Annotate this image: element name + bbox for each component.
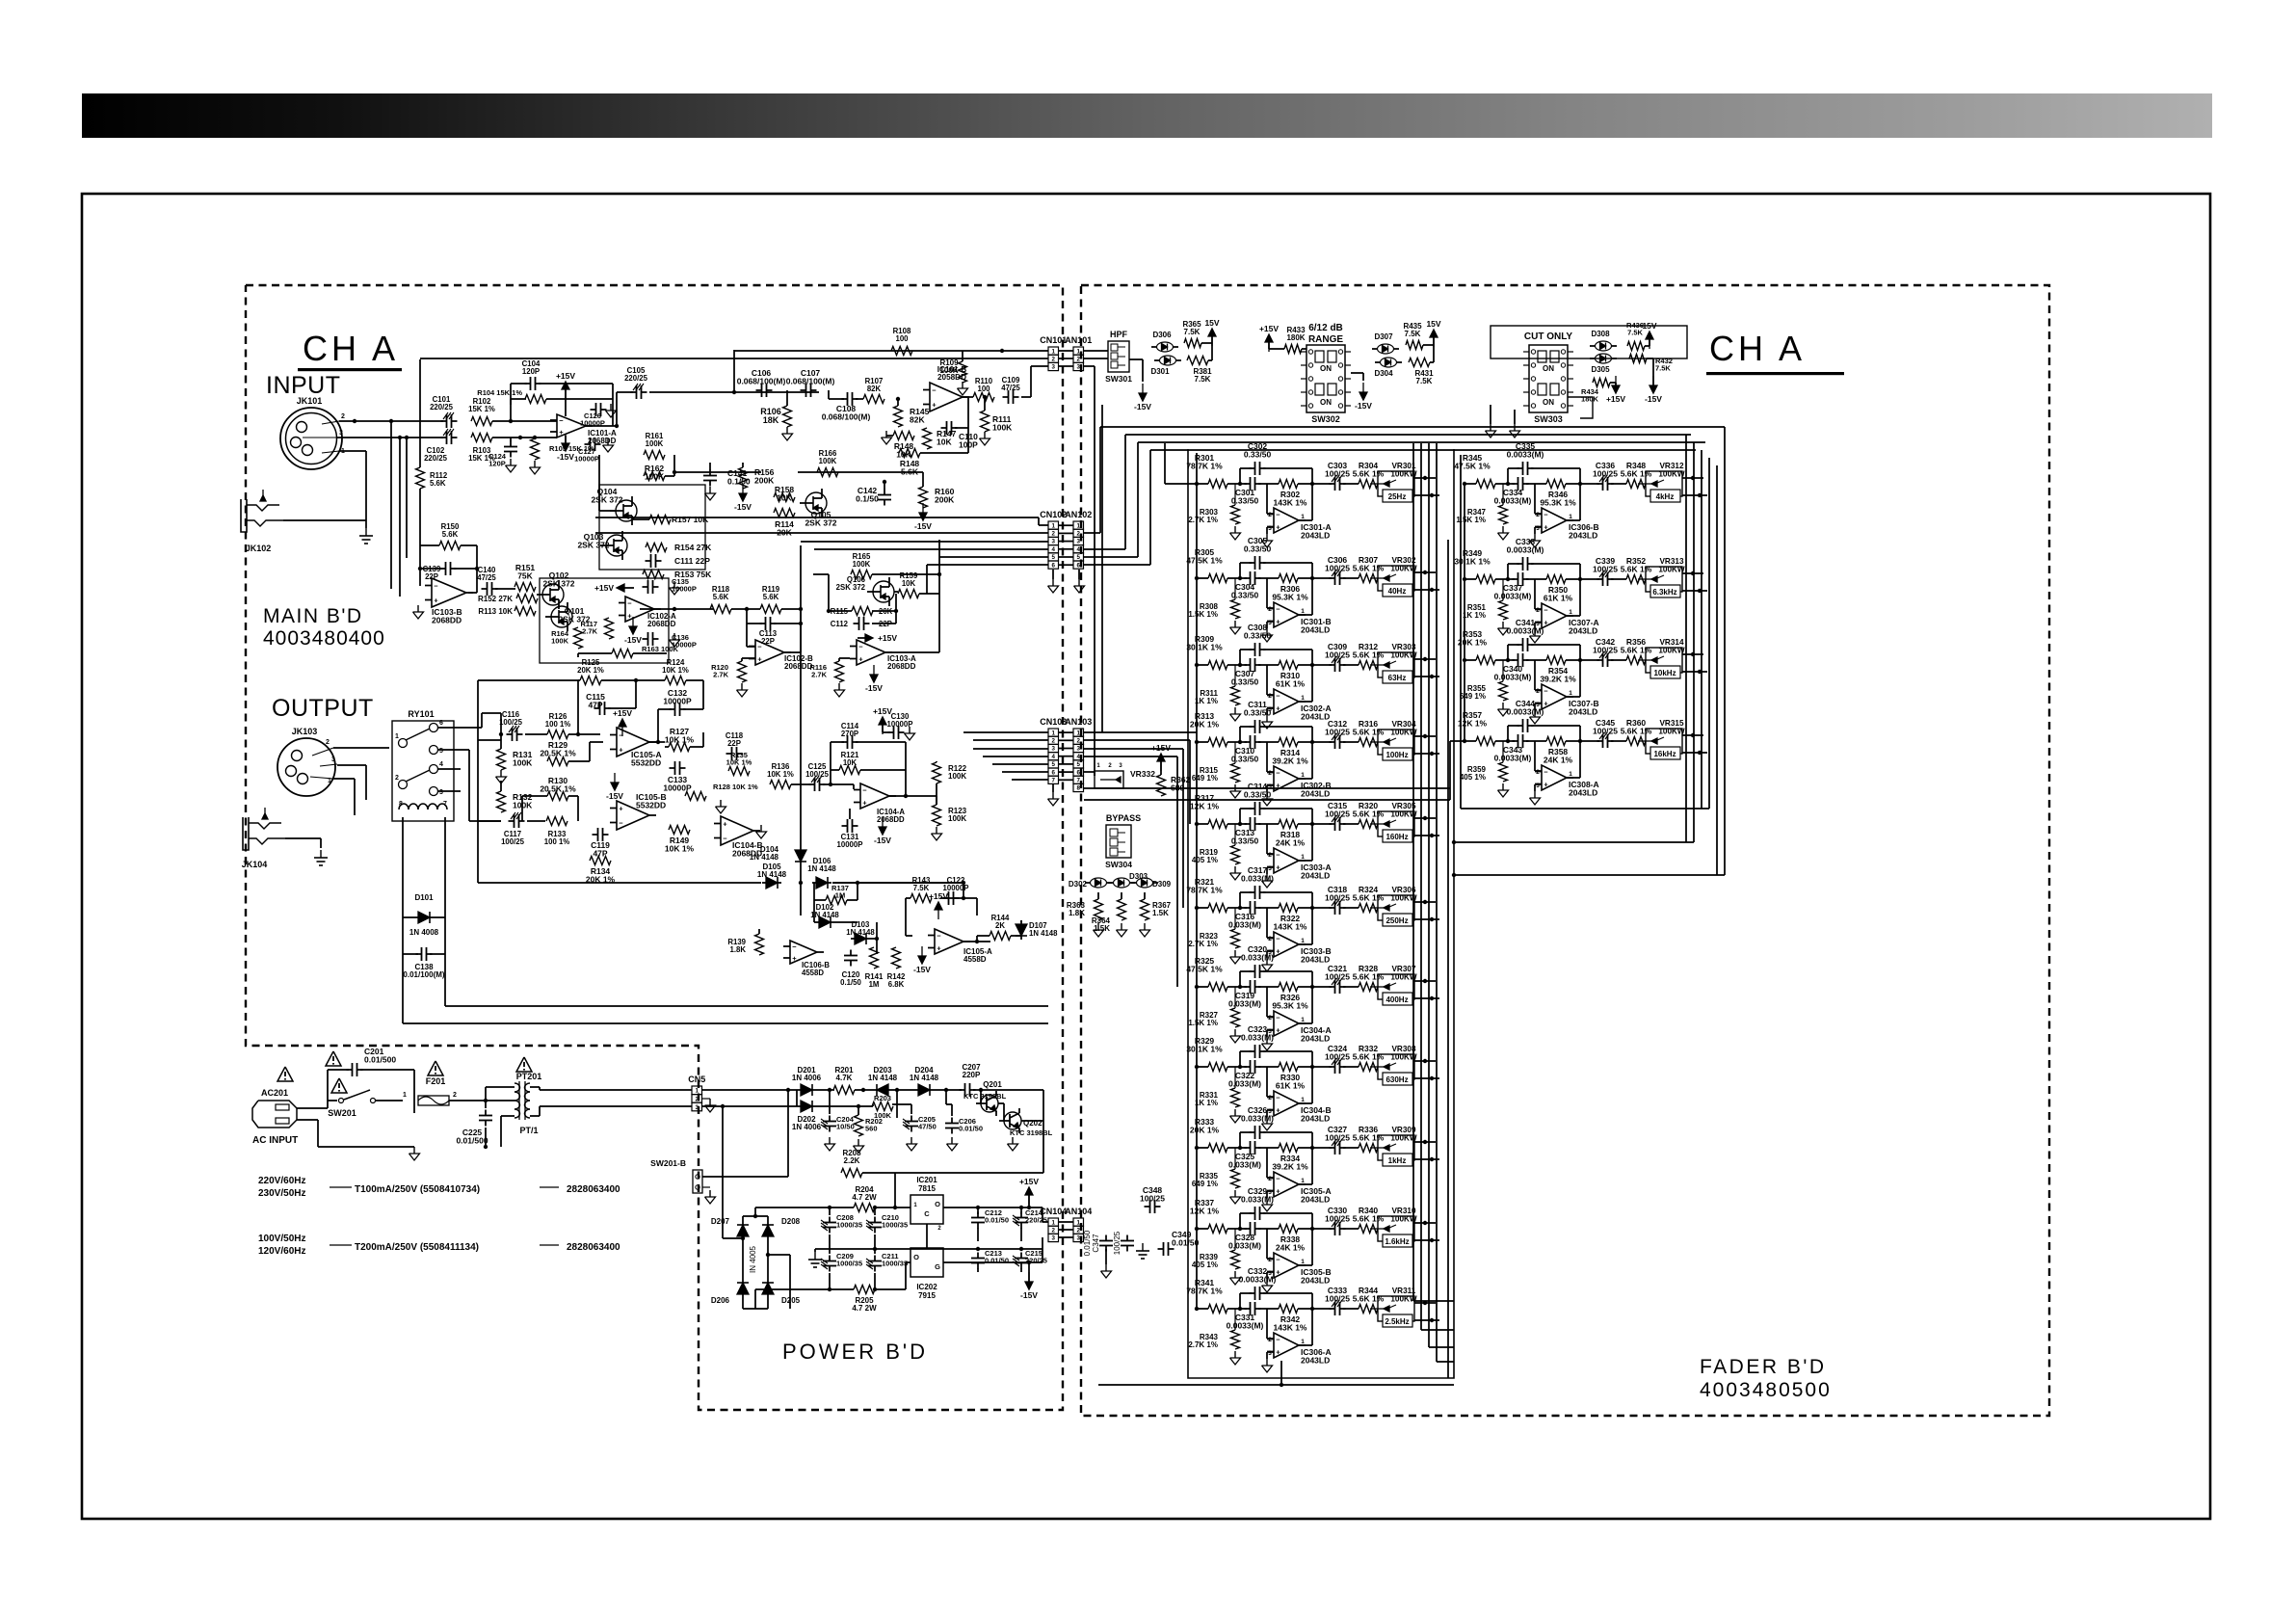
svg-text:0.01/500: 0.01/500 (456, 1136, 488, 1146)
svg-text:R203: R203 (874, 1094, 891, 1102)
power +15V at IC101-A (565, 389, 567, 399)
svg-text:−: − (862, 786, 867, 795)
wire VR302 to bus (1414, 571, 1436, 573)
capacitor C333 (1330, 1308, 1335, 1310)
capacitor C210 (874, 1217, 876, 1223)
wire output of IC301-B (1299, 614, 1312, 616)
capacitor C139 (440, 568, 446, 570)
op-amp IC101-A (557, 414, 586, 438)
resistor R204 (854, 1204, 875, 1212)
wire VR312 to bus (1682, 477, 1703, 479)
svg-text:0.1/50: 0.1/50 (856, 494, 879, 504)
connector AN104 (1073, 1218, 1084, 1226)
bridge diode D206 (742, 1279, 744, 1298)
wire node A of cell VR311 (1227, 1308, 1247, 1310)
svg-text:5.6K 1%: 5.6K 1% (1353, 972, 1385, 982)
svg-text:6: 6 (1052, 562, 1056, 569)
capacitor C306 (1330, 577, 1335, 579)
svg-text:2: 2 (1052, 1228, 1056, 1234)
wire main board power verticals (402, 848, 404, 1023)
wires MAIN to CN102 (595, 517, 1039, 518)
svg-text:2043LD: 2043LD (1301, 1114, 1330, 1124)
resistor R360 (1626, 737, 1646, 746)
XLR connector JK101 (280, 408, 342, 469)
diode D307 (1378, 344, 1394, 354)
svg-text:6: 6 (1077, 562, 1081, 569)
svg-text:AN101: AN101 (1065, 335, 1092, 345)
potentiometer VR309 (1378, 1135, 1414, 1160)
bridge diode D207 (742, 1221, 744, 1240)
svg-text:100/25: 100/25 (1325, 1052, 1350, 1062)
resistor R303 (1231, 505, 1240, 524)
svg-text:100KW: 100KW (1390, 470, 1417, 479)
resistor R149 (669, 826, 690, 835)
capacitor C321 (1330, 986, 1335, 988)
svg-text:100K: 100K (992, 423, 1013, 433)
connector CN101 (1048, 347, 1059, 355)
wire output of IC306-A (1299, 1344, 1312, 1346)
svg-text:220/25: 220/25 (424, 454, 448, 463)
capacitor C334 (1513, 483, 1518, 485)
resistor R304 (1359, 480, 1378, 489)
resistor R143 (910, 894, 932, 903)
capacitor C142 (884, 490, 885, 495)
svg-text:0.033(M): 0.033(M) (1241, 1033, 1274, 1043)
svg-text:405 1%: 405 1% (1192, 1261, 1218, 1269)
svg-text:47/25: 47/25 (1001, 384, 1020, 392)
svg-text:1: 1 (1301, 695, 1305, 702)
capacitor C136 (643, 638, 648, 640)
wire input of R357 (1465, 740, 1476, 742)
svg-text:39.2K 1%: 39.2K 1% (1272, 756, 1308, 766)
svg-text:SW303: SW303 (1534, 414, 1563, 424)
svg-text:560: 560 (865, 1125, 878, 1133)
svg-text:PT201: PT201 (516, 1072, 542, 1081)
svg-text:3: 3 (339, 430, 343, 437)
resistor R326 (1279, 983, 1298, 992)
svg-text:4.7K: 4.7K (836, 1074, 853, 1082)
ground of R331 (1234, 1109, 1236, 1116)
svg-text:3: 3 (1077, 364, 1081, 371)
svg-text:1: 1 (1301, 938, 1305, 944)
svg-text:+: + (559, 428, 564, 437)
svg-text:22P: 22P (727, 739, 741, 748)
svg-text:10K: 10K (843, 758, 858, 767)
svg-text:D308: D308 (1591, 330, 1610, 338)
svg-text:100KW: 100KW (1390, 1053, 1417, 1062)
svg-text:270P: 270P (841, 730, 858, 738)
svg-text:0.0033(M): 0.0033(M) (1494, 496, 1532, 506)
svg-text:3: 3 (1268, 1350, 1272, 1357)
capacitor C108 (842, 398, 848, 400)
svg-text:8: 8 (399, 801, 403, 808)
svg-text:1N 4148: 1N 4148 (1029, 929, 1058, 938)
potentiometer VR314 (1646, 648, 1682, 673)
svg-text:0.068/100(M): 0.068/100(M) (737, 377, 786, 386)
capacitor C304 (1245, 577, 1251, 579)
capacitor C311 (1250, 726, 1255, 728)
svg-text:7915: 7915 (918, 1291, 936, 1300)
svg-text:2828063400: 2828063400 (567, 1242, 620, 1253)
resistor R336 (1359, 1144, 1378, 1153)
resistor R355 (1499, 681, 1508, 701)
op-amp IC307-A (1542, 603, 1567, 628)
svg-text:100K: 100K (853, 560, 871, 569)
capacitor C305 (1250, 562, 1255, 564)
regulator IC202 (910, 1248, 943, 1277)
svg-text:D301: D301 (1150, 367, 1170, 376)
ground of R311 (1234, 707, 1236, 714)
resistor R130 (547, 792, 568, 801)
resistor R106 (783, 406, 792, 427)
svg-text:−: − (1276, 935, 1280, 943)
capacitor C132 (670, 708, 675, 710)
svg-text:−: − (1276, 511, 1280, 519)
resistor R109 (959, 361, 967, 383)
svg-text:2043LD: 2043LD (1301, 1034, 1330, 1044)
resistor R364 (1118, 899, 1126, 920)
svg-text:10000P: 10000P (663, 697, 692, 706)
svg-text:1: 1 (1301, 772, 1305, 779)
resistor R338 (1279, 1225, 1298, 1234)
wire node A of cell VR315 (1495, 740, 1515, 742)
fader left vertical feed bus (1196, 453, 1198, 1309)
svg-text:2: 2 (1536, 607, 1540, 614)
svg-text:2: 2 (395, 775, 399, 782)
svg-text:MAIN B'D: MAIN B'D (263, 605, 363, 627)
ground of CN5 (702, 1098, 710, 1100)
capacitor C120 (850, 950, 852, 956)
ground of R116 (838, 683, 840, 690)
svg-text:250Hz: 250Hz (1386, 916, 1408, 925)
wires MAIN to CN103 (963, 731, 1048, 733)
wire C140 to R151 (495, 588, 515, 590)
svg-text:1000/35: 1000/35 (882, 1221, 908, 1230)
svg-text:100/25: 100/25 (1325, 972, 1350, 982)
svg-text:20.5K 1%: 20.5K 1% (540, 749, 576, 758)
svg-text:5.6K 1%: 5.6K 1% (1353, 809, 1385, 819)
svg-text:8: 8 (1077, 785, 1081, 792)
op-amp IC104-A (860, 783, 889, 809)
svg-text:5: 5 (1052, 554, 1056, 561)
svg-text:-15V: -15V (1645, 394, 1662, 404)
svg-text:0.33/50: 0.33/50 (1244, 631, 1272, 641)
svg-text:0.01/50: 0.01/50 (1172, 1238, 1200, 1248)
svg-text:95.3K 1%: 95.3K 1% (1540, 498, 1576, 508)
resistor R115 (852, 607, 873, 616)
svg-text:10K 1%: 10K 1% (665, 844, 695, 854)
svg-text:VR332: VR332 (1130, 769, 1155, 779)
svg-text:2: 2 (1268, 1337, 1272, 1343)
svg-text:2SK 372: 2SK 372 (805, 518, 836, 528)
svg-text:2068DD: 2068DD (432, 616, 462, 625)
svg-text:1N 4148: 1N 4148 (750, 853, 779, 862)
svg-text:C112: C112 (831, 620, 849, 628)
svg-text:649 1%: 649 1% (1192, 1180, 1218, 1188)
svg-text:5.6K: 5.6K (763, 593, 779, 601)
svg-text:3: 3 (331, 756, 335, 763)
resistor R340 (1359, 1225, 1378, 1234)
fader far right buses (1685, 435, 1687, 842)
capacitor C212 (977, 1212, 979, 1218)
resistor R164 (574, 627, 583, 649)
svg-text:0.01/50: 0.01/50 (985, 1216, 1009, 1225)
svg-text:2: 2 (1052, 738, 1056, 745)
svg-text:−: − (1544, 687, 1548, 696)
svg-text:+: + (434, 597, 438, 605)
svg-text:CH A: CH A (303, 329, 399, 368)
transistor Q104 (616, 500, 637, 521)
svg-text:5532DD: 5532DD (636, 801, 666, 810)
svg-text:1: 1 (1077, 522, 1081, 529)
wire VR307 to bus (1414, 980, 1436, 982)
svg-text:2043LD: 2043LD (1301, 955, 1330, 965)
wire node A of cell VR303 (1227, 664, 1247, 666)
svg-text:0.068/100(M): 0.068/100(M) (786, 377, 835, 386)
svg-text:T200mA/250V (5508411134): T200mA/250V (5508411134) (355, 1242, 479, 1253)
grounds of power filters (829, 1137, 831, 1144)
resistor R367 (1141, 899, 1149, 920)
capacitor C209 (829, 1256, 831, 1261)
svg-text:0.033(M): 0.033(M) (1228, 1079, 1261, 1089)
wire IC101-A output (586, 425, 617, 427)
transistor Q105 (805, 492, 827, 514)
resistor R354 (1546, 656, 1566, 665)
diode D101 (414, 916, 434, 918)
diode D309 (1137, 878, 1153, 888)
drawing border frame (82, 194, 2210, 1519)
capacitor C109 (1003, 396, 1009, 398)
resistor R141 (870, 947, 879, 969)
capacitor C133 (670, 767, 675, 769)
svg-text:5.6K 1%: 5.6K 1% (1353, 564, 1385, 573)
capacitor C122 (943, 897, 949, 899)
capacitor C330 (1330, 1228, 1335, 1230)
svg-text:5: 5 (1077, 554, 1081, 561)
resistor R436 (1627, 342, 1645, 351)
ground of IC308-A (1534, 791, 1536, 798)
svg-text:AN104: AN104 (1065, 1207, 1092, 1216)
svg-text:1: 1 (1301, 1017, 1305, 1023)
op-amp IC102-A (625, 597, 654, 622)
capacitor C327 (1330, 1147, 1335, 1149)
wire node A of cell VR302 (1227, 577, 1247, 579)
wire input of R349 (1465, 578, 1476, 580)
warning triangle at PT201 (516, 1057, 532, 1072)
svg-text:61K 1%: 61K 1% (1276, 679, 1306, 689)
svg-text:2043LD: 2043LD (1301, 531, 1330, 541)
resistor R148a (893, 432, 914, 440)
svg-text:100KW: 100KW (1390, 973, 1417, 982)
op-amp IC308-A (1542, 765, 1567, 790)
XLR connector JK103 (277, 738, 335, 796)
stage box around Q104 (599, 485, 705, 570)
resistor R122 (933, 762, 941, 783)
op-amp IC301-A (1274, 508, 1299, 533)
svg-text:2068DD: 2068DD (877, 815, 905, 824)
power -15V at IC202 (1028, 1272, 1030, 1282)
capacitor C310 (1245, 741, 1251, 743)
op-amp IC305-B (1274, 1253, 1299, 1278)
resistor R435 (1406, 341, 1423, 350)
capacitor C342 (1597, 659, 1603, 661)
svg-text:2K: 2K (995, 921, 1005, 930)
resistor R329 (1208, 1063, 1227, 1072)
diode D107 (1020, 920, 1022, 940)
svg-text:5.6K 1%: 5.6K 1% (1353, 1052, 1385, 1062)
svg-text:2.7K: 2.7K (811, 671, 827, 679)
ground of R145 (885, 431, 887, 438)
AC plug AC201 (252, 1101, 297, 1128)
svg-text:39.2K 1%: 39.2K 1% (1272, 1162, 1308, 1172)
resistor R307 (1359, 574, 1378, 583)
ground of JK102 (365, 528, 367, 536)
svg-text:2: 2 (1268, 1095, 1272, 1101)
capacitor C315 (1330, 823, 1335, 825)
svg-text:2: 2 (1268, 1015, 1272, 1022)
svg-text:3: 3 (696, 1104, 699, 1111)
ground of JK104 (320, 850, 322, 858)
svg-text:SW201: SW201 (328, 1108, 356, 1118)
resistor R306 (1279, 574, 1298, 583)
svg-text:47P: 47P (588, 701, 602, 710)
svg-text:+: + (723, 820, 727, 829)
diode D303 (1114, 878, 1130, 888)
ground of C124 (510, 459, 512, 465)
svg-text:2SK 372: 2SK 372 (542, 579, 574, 589)
svg-text:24K 1%: 24K 1% (1544, 756, 1573, 765)
svg-text:12K 1%: 12K 1% (1190, 1207, 1220, 1216)
resistor R114 (774, 509, 795, 518)
svg-text:+15V: +15V (1019, 1177, 1039, 1186)
capacitor C302 (1250, 467, 1255, 469)
ground of IC103-B (417, 605, 419, 612)
power -15V of SW301 (1142, 384, 1144, 393)
capacitor C314 (1250, 808, 1255, 809)
svg-text:+: + (932, 401, 937, 410)
pot VR332 (1095, 771, 1123, 788)
wire feedback C104 (511, 383, 527, 385)
wire VR313 to bus (1682, 572, 1703, 574)
svg-text:−: − (1276, 692, 1280, 701)
svg-text:1K 1%: 1K 1% (1195, 697, 1218, 705)
svg-text:3: 3 (1536, 525, 1540, 532)
potentiometer VR315 (1646, 729, 1682, 754)
wire VR315 to bus (1682, 734, 1703, 736)
svg-text:0.033(M): 0.033(M) (1241, 1114, 1274, 1124)
svg-text:C111 22P: C111 22P (674, 556, 710, 566)
svg-text:1N 4006: 1N 4006 (792, 1123, 822, 1131)
svg-text:IC201: IC201 (916, 1176, 937, 1184)
capacitor C101 (441, 420, 447, 422)
capacitor C340 (1513, 659, 1518, 661)
svg-text:SW201-B: SW201-B (650, 1158, 686, 1168)
svg-text:2.7K: 2.7K (713, 671, 728, 679)
svg-text:5.6K 1%: 5.6K 1% (1353, 650, 1385, 660)
svg-text:0.33/50: 0.33/50 (1244, 708, 1272, 718)
title gradient bar (82, 93, 2212, 138)
wire output of IC304-B (1299, 1102, 1312, 1104)
capacitor C344 (1517, 725, 1523, 727)
op-amp IC307-B (1542, 684, 1567, 709)
svg-text:100KW: 100KW (1390, 1134, 1417, 1143)
svg-text:2043LD: 2043LD (1301, 1356, 1330, 1366)
capacitor C201 (347, 1069, 353, 1071)
svg-text:CN101: CN101 (1040, 335, 1067, 345)
svg-text:-15V: -15V (606, 791, 623, 801)
svg-text:7.5K: 7.5K (1184, 328, 1201, 336)
svg-text:180K: 180K (1286, 333, 1305, 342)
resistor R334 (1279, 1144, 1298, 1153)
ground of CN102 (1052, 570, 1054, 579)
svg-text:1: 1 (1569, 609, 1572, 616)
resistor R166 (817, 468, 838, 477)
wire main power bus to right (445, 1005, 1048, 1007)
svg-text:+: + (1276, 863, 1280, 872)
svg-text:5.6K: 5.6K (442, 530, 459, 539)
resistor R325 (1208, 983, 1227, 992)
svg-text:KTC 3198BL: KTC 3198BL (963, 1092, 1007, 1101)
resistor R431 (1409, 358, 1430, 367)
ground of C141 (709, 487, 711, 493)
svg-text:2828063400: 2828063400 (567, 1184, 620, 1195)
svg-text:2: 2 (453, 1092, 457, 1099)
switch SW302 (1306, 345, 1345, 412)
switch SW301 HPF (1108, 341, 1129, 372)
svg-text:82K: 82K (910, 415, 925, 425)
svg-text:2043LD: 2043LD (1569, 788, 1597, 798)
diode D203 (873, 1089, 892, 1091)
wire output of IC305-A (1299, 1183, 1312, 1185)
svg-text:30.1K 1%: 30.1K 1% (1454, 557, 1491, 567)
diode D306 (1157, 342, 1174, 352)
capacitor C215 (1020, 1253, 1022, 1259)
capacitor C337 (1513, 578, 1518, 580)
resistor R125 (580, 677, 601, 685)
capacitor C346 (1126, 1235, 1128, 1241)
svg-text:10K 1%: 10K 1% (665, 735, 695, 745)
svg-text:0.1/50: 0.1/50 (727, 477, 751, 487)
capacitor C319 (1245, 986, 1251, 988)
svg-text:82K: 82K (867, 385, 882, 393)
ground of IC305-A (1266, 1198, 1268, 1205)
wires IC105 cluster (525, 733, 547, 735)
svg-text:10K 1%: 10K 1% (662, 666, 689, 675)
resistor R365 (1184, 339, 1201, 348)
ground of C127 (607, 438, 609, 445)
resistor R133 (546, 817, 567, 826)
svg-text:10K 1%: 10K 1% (767, 770, 794, 779)
svg-text:5: 5 (1077, 761, 1081, 768)
svg-text:1: 1 (1077, 730, 1081, 736)
svg-text:2043LD: 2043LD (1301, 1195, 1330, 1205)
svg-text:100 1%: 100 1% (545, 720, 571, 729)
resistor R205 (854, 1286, 875, 1294)
svg-text:−: − (932, 386, 937, 395)
resistor R139 (755, 934, 764, 955)
power +15V of IC103-A (865, 634, 873, 642)
potentiometer VR301 (1378, 471, 1414, 496)
svg-text:16kHz: 16kHz (1653, 750, 1676, 758)
svg-text:−: − (792, 942, 797, 951)
resistor R301 (1208, 480, 1227, 489)
resistor R352 (1626, 575, 1646, 584)
op-amp IC302-A (1274, 689, 1299, 714)
op-amp IC304-A (1274, 1011, 1299, 1036)
svg-text:3: 3 (1077, 1235, 1081, 1242)
svg-text:PT/1: PT/1 (519, 1126, 538, 1135)
svg-text:61K 1%: 61K 1% (1544, 594, 1573, 603)
